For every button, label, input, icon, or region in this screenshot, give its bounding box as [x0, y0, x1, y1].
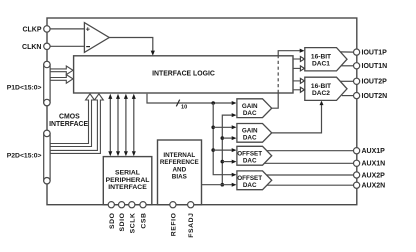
svg-text:SCLK: SCLK: [129, 213, 136, 234]
svg-text:P1D<15:0>: P1D<15:0>: [7, 84, 42, 91]
label CMOS INTERFACE: [49, 113, 88, 128]
svg-text:OFFSET: OFFSET: [237, 175, 262, 182]
wire SPI bidirectional 4: [132, 94, 136, 157]
wire line2 to offset DAC1: [222, 160, 236, 164]
wire vertical bus line 2: [222, 115, 232, 185]
wire gain DAC1 output routed up (dashed through interface logic) to 16-bit DAC1: [272, 49, 305, 109]
svg-text:SDO: SDO: [109, 213, 116, 230]
svg-text:INTERFACE LOGIC: INTERFACE LOGIC: [152, 71, 215, 78]
svg-text:10: 10: [181, 104, 187, 110]
svg-text:IOUT1P: IOUT1P: [362, 50, 388, 57]
wire line1 to gain DAC2: [213, 125, 236, 129]
svg-text:CLKP: CLKP: [22, 26, 41, 33]
svg-text:FSADJ: FSADJ: [188, 213, 195, 238]
svg-text:CSB: CSB: [141, 213, 148, 229]
svg-text:REFERENCE: REFERENCE: [160, 159, 199, 166]
svg-text:SERIAL: SERIAL: [115, 170, 140, 177]
op-amp U1 clock comparator: [84, 23, 109, 53]
wire offset DAC2 to AUX2P: [267, 174, 354, 176]
port P1D<15:0> capsule: [7, 61, 50, 106]
pin REFIO: [170, 202, 176, 208]
pin SDIO: [119, 202, 125, 208]
svg-text:AUX1N: AUX1N: [362, 161, 386, 168]
svg-text:OFFSET: OFFSET: [237, 150, 262, 157]
gain DAC 2: [237, 124, 272, 143]
wire CLKP to comparator: [50, 28, 84, 30]
svg-text:CLKN: CLKN: [22, 44, 41, 51]
svg-text:PERIPHERAL: PERIPHERAL: [106, 177, 150, 184]
pin SCLK: [129, 202, 135, 208]
node junction line1 to gain DAC2: [211, 126, 215, 130]
pin IOUT1N: [354, 63, 360, 69]
svg-text:DAC2: DAC2: [312, 90, 330, 97]
node junction on bus line 1: [211, 101, 215, 105]
wire DAC2 output to IOUT2N: [342, 95, 354, 97]
wire SPI bidirectional 2: [116, 94, 120, 157]
svg-text:INTERFACE: INTERFACE: [108, 184, 147, 191]
node junction bias line meets line 2: [221, 183, 225, 187]
bus arrow P1D to interface logic (lower): [50, 75, 73, 84]
node junction line1 to offset DAC1: [211, 148, 215, 152]
node junction line2 to offset DAC1: [221, 160, 225, 164]
wire internal reference bias to offset DAC2: [202, 183, 237, 187]
pin FSADJ: [188, 202, 194, 208]
wire offset DAC1 to AUX1N: [264, 162, 353, 164]
svg-text:IOUT2N: IOUT2N: [362, 93, 388, 100]
wire offset DAC2 to AUX2N: [267, 184, 354, 186]
wire DAC2 output to IOUT2P: [340, 80, 353, 82]
wire interface logic to DAC1 data (lower): [293, 66, 304, 71]
16-bit DAC1: [305, 48, 347, 71]
wire line2 to gain DAC2: [222, 136, 236, 140]
wire interface logic to DAC1 data (upper): [293, 57, 304, 62]
wire gain DAC2 output up into 16-bit DAC2: [272, 101, 324, 133]
pin CLKN: [44, 43, 50, 49]
pin AUX1N: [354, 160, 360, 166]
wire interface logic to DAC2 data (upper): [293, 78, 304, 83]
svg-text:REFIO: REFIO: [170, 213, 177, 237]
svg-text:GAIN: GAIN: [242, 128, 258, 135]
bus arrow P1D to interface logic (upper): [50, 66, 73, 75]
offset DAC 1: [237, 146, 272, 165]
pin AUX2N: [354, 182, 360, 188]
svg-text:CMOS: CMOS: [59, 113, 80, 120]
svg-text:AUX2N: AUX2N: [362, 183, 386, 190]
svg-text:DAC: DAC: [243, 182, 257, 189]
wire offset DAC1 to AUX1P: [267, 150, 354, 152]
svg-text:DAC: DAC: [243, 110, 257, 117]
bus arrow P2D up into interface logic (right): [50, 94, 103, 154]
offset DAC 2: [237, 171, 272, 190]
wire DAC1 output to IOUT1N: [342, 65, 354, 67]
wire line1 to offset DAC1: [213, 148, 236, 152]
wire CLKN to comparator: [50, 45, 84, 47]
svg-text:BIAS: BIAS: [172, 174, 187, 181]
svg-text:AUX1P: AUX1P: [362, 148, 386, 155]
node junction line2 to gain DAC2: [221, 136, 225, 140]
pin IOUT2N: [354, 93, 360, 99]
port P2D<15:0> capsule: [7, 130, 50, 184]
svg-text:DAC: DAC: [243, 135, 257, 142]
svg-text:+: +: [86, 25, 91, 34]
gain DAC 1: [237, 99, 272, 118]
svg-text:IOUT1N: IOUT1N: [362, 63, 388, 70]
svg-text:INTERNAL: INTERNAL: [163, 152, 195, 159]
wire SPI bidirectional 3: [124, 94, 128, 157]
pin CSB: [140, 202, 146, 208]
svg-text:16-BIT: 16-BIT: [311, 53, 331, 60]
svg-text:AUX2P: AUX2P: [362, 172, 386, 179]
wire SPI bidirectional 1: [108, 94, 112, 157]
pin IOUT1P: [354, 49, 360, 55]
wire DAC1 output to IOUT1P: [340, 51, 353, 53]
svg-text:GAIN: GAIN: [242, 103, 258, 110]
pin CLKP: [44, 26, 50, 32]
wire comparator output to interface logic: [109, 38, 155, 56]
pin AUX1P: [354, 148, 360, 154]
svg-text:IOUT2P: IOUT2P: [362, 79, 388, 86]
svg-text:P2D<15:0>: P2D<15:0>: [7, 152, 42, 159]
svg-text:AND: AND: [172, 166, 186, 173]
wire vertical bus line 1: [213, 103, 232, 175]
outer border: [47, 18, 357, 205]
svg-text:16-BIT: 16-BIT: [311, 83, 331, 90]
pin IOUT2P: [354, 78, 360, 84]
svg-text:INTERFACE: INTERFACE: [49, 121, 88, 128]
wire interface logic to DAC2 data (lower): [293, 87, 304, 92]
svg-text:DAC: DAC: [243, 158, 257, 165]
internal reference and bias block: [158, 140, 202, 205]
wire 10-bit bus from interface logic to gain DAC1: [147, 94, 237, 111]
svg-text:DAC1: DAC1: [312, 61, 330, 68]
svg-text:SDIO: SDIO: [119, 213, 126, 232]
serial peripheral interface block: [103, 157, 152, 205]
16-bit DAC2: [305, 77, 347, 100]
bus arrow P2D up into interface logic (left): [50, 94, 94, 147]
pin AUX2P: [354, 172, 360, 178]
pin SDO: [108, 202, 114, 208]
interface logic block: [74, 56, 293, 93]
